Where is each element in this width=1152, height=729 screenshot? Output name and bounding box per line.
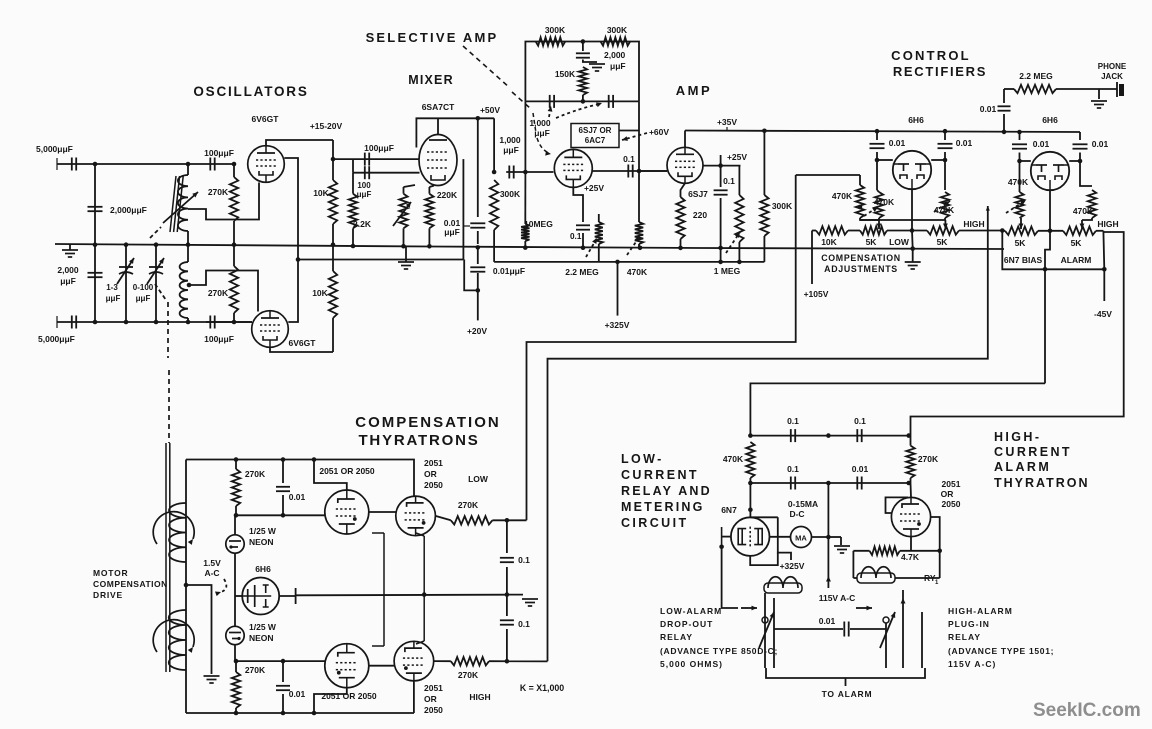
svg-text:150K: 150K [555, 69, 576, 79]
svg-text:6H6: 6H6 [1042, 115, 1058, 125]
svg-text:2051 OR 2050: 2051 OR 2050 [321, 691, 377, 701]
svg-text:300K: 300K [772, 201, 793, 211]
svg-text:470K: 470K [1073, 206, 1094, 216]
svg-text:300K: 300K [607, 25, 628, 35]
svg-text:RELAY: RELAY [948, 632, 981, 642]
svg-text:0.01: 0.01 [956, 138, 973, 148]
svg-text:5,000μμF: 5,000μμF [38, 334, 75, 344]
svg-text:ALARM: ALARM [994, 460, 1051, 474]
svg-text:2.2 MEG: 2.2 MEG [565, 267, 599, 277]
svg-text:NEON: NEON [249, 537, 274, 547]
svg-text:10MEG: 10MEG [524, 219, 553, 229]
svg-text:2,000: 2,000 [57, 265, 79, 275]
svg-text:NEON: NEON [249, 633, 274, 643]
svg-text:0.01: 0.01 [980, 104, 997, 114]
svg-text:5K: 5K [866, 237, 878, 247]
svg-text:+15-20V: +15-20V [310, 121, 343, 131]
svg-text:LOW-: LOW- [621, 452, 664, 466]
svg-text:115V A-C): 115V A-C) [948, 659, 996, 669]
svg-text:+50V: +50V [480, 105, 500, 115]
svg-text:270K: 270K [918, 454, 939, 464]
svg-text:HIGH-: HIGH- [994, 430, 1041, 444]
svg-text:0.01: 0.01 [289, 689, 306, 699]
svg-text:OSCILLATORS: OSCILLATORS [193, 84, 308, 99]
svg-text:6AC7: 6AC7 [585, 136, 606, 145]
svg-text:2051 OR 2050: 2051 OR 2050 [319, 466, 375, 476]
svg-text:CURRENT: CURRENT [621, 468, 699, 482]
svg-text:2051: 2051 [424, 683, 443, 693]
svg-text:PLUG-IN: PLUG-IN [948, 619, 990, 629]
svg-text:270K: 270K [458, 670, 479, 680]
svg-text:270K: 270K [245, 469, 266, 479]
svg-text:2050: 2050 [424, 705, 443, 715]
svg-text:5,000μμF: 5,000μμF [36, 144, 73, 154]
svg-text:CIRCUIT: CIRCUIT [621, 516, 689, 530]
svg-text:10K: 10K [313, 188, 329, 198]
svg-text:+60V: +60V [649, 127, 669, 137]
svg-text:1,000: 1,000 [529, 118, 551, 128]
svg-text:1,000: 1,000 [499, 135, 521, 145]
svg-text:HIGH: HIGH [469, 692, 490, 702]
svg-text:ADJUSTMENTS: ADJUSTMENTS [824, 264, 898, 274]
svg-text:470K: 470K [934, 205, 955, 215]
svg-text:+25V: +25V [584, 183, 604, 193]
svg-text:JACK: JACK [1101, 72, 1123, 81]
svg-text:COMPENSATION: COMPENSATION [93, 579, 168, 589]
svg-text:2050: 2050 [424, 480, 443, 490]
svg-text:0-15MA: 0-15MA [788, 499, 818, 509]
svg-text:THYRATRON: THYRATRON [994, 476, 1090, 490]
svg-text:(ADVANCE TYPE 1501;: (ADVANCE TYPE 1501; [948, 646, 1054, 656]
svg-text:2,000μμF: 2,000μμF [110, 205, 147, 215]
svg-text:1/25 W: 1/25 W [249, 526, 277, 536]
svg-text:270K: 270K [458, 500, 479, 510]
svg-text:0.01: 0.01 [1033, 139, 1050, 149]
svg-text:+35V: +35V [717, 117, 737, 127]
svg-text:OR: OR [424, 469, 437, 479]
svg-text:HIGH-ALARM: HIGH-ALARM [948, 606, 1013, 616]
svg-text:μμF: μμF [60, 276, 76, 286]
svg-text:2.2K: 2.2K [353, 219, 372, 229]
svg-text:COMPENSATION: COMPENSATION [355, 414, 500, 431]
svg-text:μμF: μμF [534, 128, 550, 138]
svg-text:470K: 470K [874, 197, 895, 207]
svg-text:μμF: μμF [444, 227, 460, 237]
svg-text:+325V: +325V [780, 561, 805, 571]
svg-text:0.01: 0.01 [289, 492, 306, 502]
svg-text:5,000 OHMS): 5,000 OHMS) [660, 659, 723, 669]
svg-text:115V A-C: 115V A-C [819, 593, 856, 603]
svg-text:4.7K: 4.7K [901, 552, 920, 562]
svg-text:HIGH: HIGH [963, 219, 984, 229]
svg-text:5K: 5K [1071, 238, 1083, 248]
svg-text:100: 100 [357, 181, 371, 190]
svg-text:2,000: 2,000 [604, 50, 626, 60]
svg-text:RELAY AND: RELAY AND [621, 484, 712, 498]
svg-text:+25V: +25V [727, 152, 747, 162]
svg-text:0.1: 0.1 [570, 232, 582, 241]
svg-text:2051: 2051 [942, 479, 961, 489]
svg-text:5K: 5K [1015, 238, 1027, 248]
svg-text:HIGH: HIGH [1097, 219, 1118, 229]
svg-text:270K: 270K [245, 665, 266, 675]
svg-text:6V6GT: 6V6GT [252, 114, 280, 124]
svg-text:RELAY: RELAY [660, 632, 693, 642]
svg-text:6N7 BIAS: 6N7 BIAS [1004, 255, 1043, 265]
svg-text:470K: 470K [832, 191, 853, 201]
svg-text:MA: MA [795, 534, 807, 543]
svg-text:0.1: 0.1 [787, 464, 799, 474]
svg-text:0.1: 0.1 [723, 176, 735, 186]
svg-text:1.5V: 1.5V [203, 558, 221, 568]
svg-text:TO ALARM: TO ALARM [822, 689, 873, 699]
svg-text:2050: 2050 [942, 499, 961, 509]
svg-text:DRIVE: DRIVE [93, 590, 123, 600]
svg-text:DROP-OUT: DROP-OUT [660, 619, 713, 629]
svg-text:LOW: LOW [889, 237, 910, 247]
svg-text:SELECTIVE AMP: SELECTIVE AMP [366, 30, 499, 45]
svg-text:μμF: μμF [106, 294, 121, 303]
svg-text:100μμF: 100μμF [204, 148, 234, 158]
svg-text:μμF: μμF [503, 145, 519, 155]
svg-text:220: 220 [693, 210, 707, 220]
svg-text:470K: 470K [1008, 177, 1029, 187]
svg-text:0.01: 0.01 [889, 138, 906, 148]
svg-text:5K: 5K [937, 237, 949, 247]
svg-text:470K: 470K [627, 267, 648, 277]
svg-text:0-100: 0-100 [133, 283, 154, 292]
svg-text:0.01: 0.01 [819, 616, 836, 626]
svg-text:270K: 270K [208, 187, 229, 197]
svg-text:300K: 300K [545, 25, 566, 35]
svg-text:D-C: D-C [789, 509, 804, 519]
svg-text:CONTROL: CONTROL [891, 48, 971, 63]
svg-text:COMPENSATION: COMPENSATION [821, 253, 901, 263]
svg-text:0.1: 0.1 [854, 416, 866, 426]
svg-text:+20V: +20V [467, 326, 487, 336]
svg-text:OR: OR [941, 489, 954, 499]
svg-text:10K: 10K [821, 237, 837, 247]
svg-text:LOW: LOW [468, 474, 489, 484]
svg-text:220K: 220K [437, 190, 458, 200]
svg-text:OR: OR [424, 694, 437, 704]
svg-text:0.1: 0.1 [623, 154, 635, 164]
svg-text:1/25 W: 1/25 W [249, 622, 277, 632]
svg-text:METERING: METERING [621, 500, 705, 514]
svg-text:AMP: AMP [676, 83, 712, 98]
svg-text:270K: 270K [208, 288, 229, 298]
svg-text:MIXER: MIXER [408, 73, 454, 87]
svg-text:RECTIFIERS: RECTIFIERS [893, 64, 987, 79]
svg-text:CURRENT: CURRENT [994, 445, 1072, 459]
svg-text:1 MEG: 1 MEG [714, 266, 741, 276]
svg-text:6V6GT: 6V6GT [289, 338, 317, 348]
svg-text:+105V: +105V [804, 289, 829, 299]
svg-text:0.01μμF: 0.01μμF [493, 266, 525, 276]
svg-text:K = X1,000: K = X1,000 [520, 683, 564, 693]
svg-text:+325V: +325V [605, 320, 630, 330]
svg-text:LOW-ALARM: LOW-ALARM [660, 606, 722, 616]
svg-text:6SA7CT: 6SA7CT [422, 102, 455, 112]
svg-text:10K: 10K [312, 288, 328, 298]
svg-text:(ADVANCE TYPE 850D-C;: (ADVANCE TYPE 850D-C; [660, 646, 778, 656]
svg-text:ALARM: ALARM [1061, 255, 1092, 265]
svg-text:μμF: μμF [136, 294, 151, 303]
svg-text:-45V: -45V [1094, 309, 1112, 319]
svg-text:0.1: 0.1 [787, 416, 799, 426]
svg-text:0.01: 0.01 [852, 464, 869, 474]
svg-text:1-3: 1-3 [106, 283, 118, 292]
svg-text:100μμF: 100μμF [204, 334, 234, 344]
svg-text:PHONE: PHONE [1098, 62, 1127, 71]
svg-text:THYRATRONS: THYRATRONS [358, 432, 479, 449]
svg-text:MOTOR: MOTOR [93, 568, 128, 578]
svg-text:μμF: μμF [610, 61, 626, 71]
svg-text:100μμF: 100μμF [364, 143, 394, 153]
svg-text:6N7: 6N7 [721, 505, 737, 515]
svg-text:0.01: 0.01 [1092, 139, 1109, 149]
svg-text:470K: 470K [723, 454, 744, 464]
svg-text:2.2 MEG: 2.2 MEG [1019, 71, 1053, 81]
svg-text:6SJ7 OR: 6SJ7 OR [579, 126, 612, 135]
svg-text:6H6: 6H6 [255, 564, 271, 574]
svg-text:0.1: 0.1 [518, 619, 530, 629]
svg-text:μμF: μμF [357, 190, 372, 199]
svg-text:6H6: 6H6 [908, 115, 924, 125]
svg-text:300K: 300K [500, 189, 521, 199]
svg-text:SeekIC.com: SeekIC.com [1033, 700, 1141, 721]
svg-text:0.1: 0.1 [518, 555, 530, 565]
svg-text:6SJ7: 6SJ7 [688, 189, 708, 199]
svg-text:2051: 2051 [424, 458, 443, 468]
svg-text:A-C: A-C [204, 568, 219, 578]
